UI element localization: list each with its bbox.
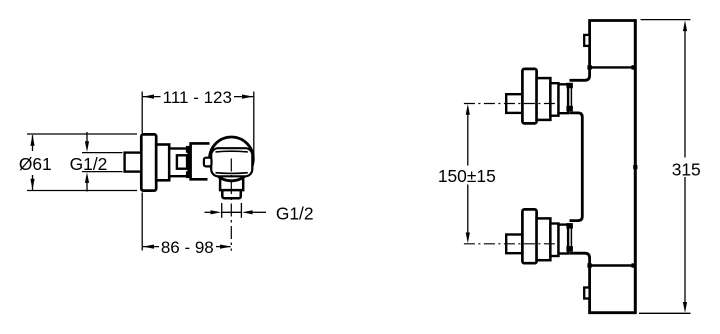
arrow bottom of O61: [30, 179, 34, 190]
dim 315 bottom extension: [639, 312, 691, 314]
handle face chamfer top: [216, 150, 248, 153]
arrow up of 315: [683, 20, 687, 31]
handle face chamfer bottom: [216, 172, 248, 175]
upper union: nut: [559, 84, 569, 113]
dim line 315: [684, 28, 686, 305]
handle face: [211, 148, 252, 176]
G1/2 wall nipple: [125, 153, 142, 172]
dim G1/2 outlet leader right: [252, 211, 266, 213]
lower union: ring1: [537, 218, 551, 260]
upper handle tab: [584, 35, 589, 46]
outlet nipple: [222, 190, 241, 198]
lower boss bottom + handle left edge + body bottom: [570, 253, 636, 313]
outlet collar: [219, 178, 245, 190]
svg-text:Ø61: Ø61: [19, 154, 52, 174]
knob detail: [177, 155, 187, 168]
outlet centerline: [230, 159, 232, 251]
upper inlet centerline: [464, 103, 557, 105]
section C housing: [191, 143, 210, 179]
upper union: ring2: [550, 83, 558, 116]
body right edge: [634, 19, 637, 314]
dim 111-123 left extension line (upper segment): [141, 92, 143, 134]
upper union: flange: [522, 69, 536, 124]
arrow left of 111-123: [143, 95, 154, 99]
dim G1/2 inlet bottom line: [82, 171, 123, 173]
lower union: ring2: [550, 224, 558, 257]
body tube A: [156, 145, 169, 181]
upper union: tick top: [566, 83, 573, 89]
arrow up to G1/2 inlet: [86, 182, 88, 192]
arrow down of 150+-15: [466, 233, 470, 244]
dim line 86-98: [143, 246, 231, 248]
upper union: wall nipple: [506, 94, 522, 113]
upper union: ring1: [537, 78, 551, 120]
svg-text:G1/2: G1/2: [276, 203, 314, 223]
dim G1/2 outlet right extension: [240, 203, 242, 218]
right edge tick: [633, 165, 637, 169]
body boss bottom + tube left edge + lower boss top: [570, 113, 583, 221]
lower inlet centerline: [464, 243, 557, 245]
collar tick top: [186, 146, 191, 153]
handle tab: [204, 158, 212, 167]
lower union: wall nipple: [506, 235, 522, 254]
arrow down to G1/2 inlet: [86, 132, 88, 142]
arrow top of O61: [30, 135, 34, 146]
dim line O61: [32, 135, 34, 190]
dim line 111-123: [143, 96, 253, 98]
dim 111-123 right extension line: [253, 92, 255, 158]
dim G1/2 outlet left extension: [221, 203, 223, 218]
lower union: tick top: [566, 223, 573, 229]
body outline upper: handle top + left edge + boss top: [570, 21, 636, 81]
arrow left of 86-98: [143, 245, 154, 249]
svg-text:150±15: 150±15: [438, 166, 496, 186]
arrow right of 111-123: [242, 95, 253, 99]
lower union: nut: [559, 225, 569, 254]
lower union: tick bottom: [566, 246, 573, 252]
dim G1/2 outlet leader left: [205, 211, 211, 213]
svg-text:G1/2: G1/2: [70, 154, 108, 174]
dim left extension line (lower segment, shared with 86-98): [141, 193, 143, 251]
svg-text:111 - 123: 111 - 123: [163, 88, 232, 107]
upper union: washer lines: [567, 88, 569, 107]
dim G1/2 inlet top line: [82, 152, 123, 154]
collar tick bottom: [186, 171, 191, 178]
svg-text:86 - 98: 86 - 98: [161, 238, 214, 257]
arrow right of 86-98: [220, 245, 231, 249]
lower union: washer lines: [567, 228, 569, 247]
dim 150+-15 line: [467, 112, 469, 235]
dim O61 bottom extension line: [27, 190, 137, 192]
arrow down of 315: [683, 302, 687, 313]
body tube B: [169, 149, 188, 177]
arrow up of 150+-15: [466, 104, 470, 115]
lower handle tab: [584, 288, 589, 299]
lower handle top line: [590, 264, 636, 266]
upper handle bottom line: [590, 66, 636, 68]
dim 315 top extension: [641, 19, 691, 21]
upper union: tick bottom: [566, 106, 573, 112]
svg-text:315: 315: [672, 159, 701, 179]
wall flange (escutcheon): [141, 134, 156, 190]
lower union: flange: [522, 209, 536, 263]
dim O61 top extension line: [27, 133, 137, 135]
main body circle: [210, 137, 254, 181]
